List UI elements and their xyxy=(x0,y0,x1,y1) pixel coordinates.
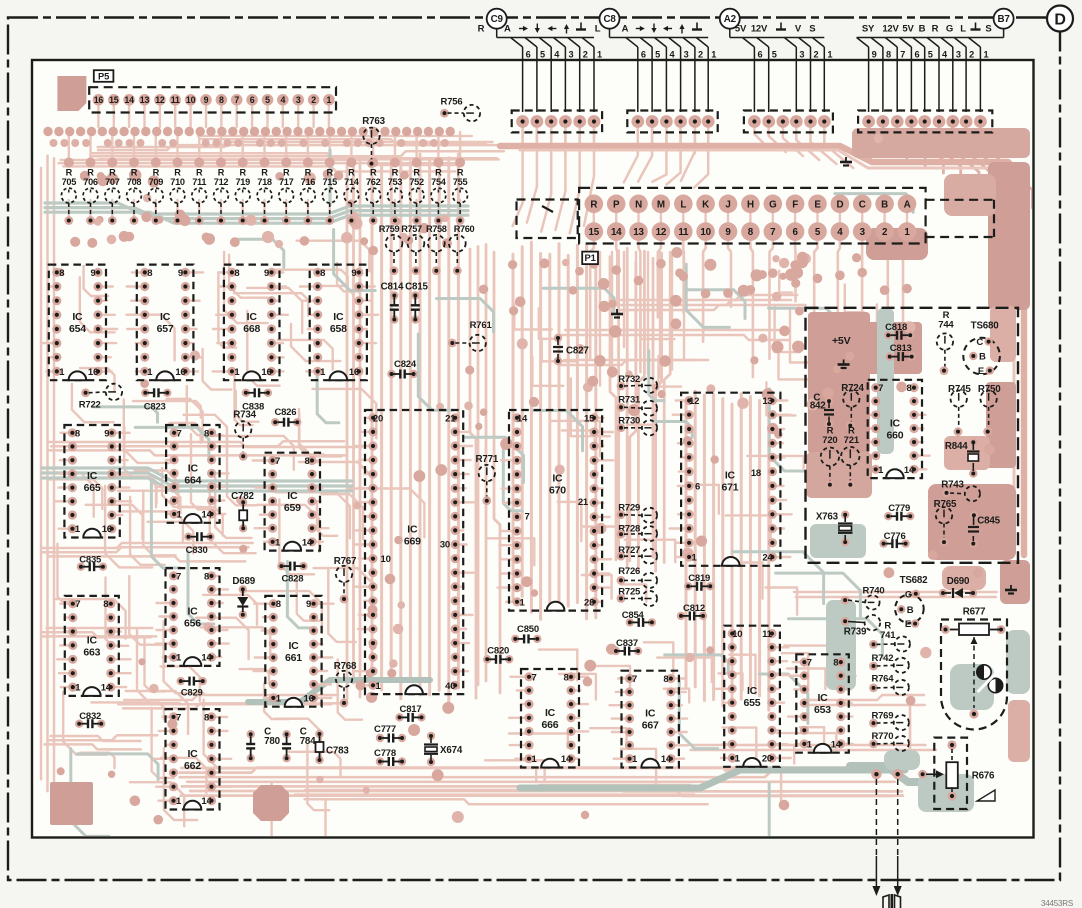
svg-text:C830: C830 xyxy=(186,545,208,556)
IC IC655 xyxy=(724,626,780,767)
svg-text:660: 660 xyxy=(886,430,903,442)
svg-text:16: 16 xyxy=(175,367,185,378)
svg-text:21: 21 xyxy=(445,413,456,424)
resistor R714 xyxy=(344,168,360,225)
resistor R722 xyxy=(79,384,122,411)
svg-text:6: 6 xyxy=(757,50,762,60)
svg-text:8: 8 xyxy=(663,674,668,685)
svg-text:1: 1 xyxy=(597,50,602,60)
svg-text:A2: A2 xyxy=(724,14,737,25)
svg-text:719: 719 xyxy=(235,177,250,187)
svg-text:D: D xyxy=(1054,11,1065,28)
svg-text:14: 14 xyxy=(561,754,572,765)
svg-text:R: R xyxy=(392,168,399,178)
svg-text:8: 8 xyxy=(204,428,209,439)
svg-text:721: 721 xyxy=(844,435,860,446)
svg-text:R765: R765 xyxy=(934,499,957,510)
svg-text:8: 8 xyxy=(75,428,80,439)
svg-text:1: 1 xyxy=(807,739,813,750)
svg-text:4: 4 xyxy=(280,95,285,105)
svg-text:TS680: TS680 xyxy=(971,320,1000,331)
svg-text:R760: R760 xyxy=(454,224,475,234)
svg-text:8: 8 xyxy=(833,658,838,669)
callout C8 xyxy=(600,9,620,29)
svg-text:720: 720 xyxy=(822,435,837,446)
svg-text:8: 8 xyxy=(276,599,281,610)
capacitor C820 xyxy=(483,646,513,664)
svg-text:R: R xyxy=(261,168,268,178)
connector B7 pin wires and labels xyxy=(857,23,1004,113)
svg-text:P1: P1 xyxy=(585,252,596,263)
svg-text:IC: IC xyxy=(187,748,198,760)
svg-text:707: 707 xyxy=(105,177,120,187)
svg-text:7: 7 xyxy=(176,571,181,582)
svg-text:IC: IC xyxy=(725,470,736,482)
resistor R771 xyxy=(475,454,498,505)
capacitor C812 xyxy=(677,603,707,621)
svg-text:7: 7 xyxy=(275,456,280,467)
capacitor C783 xyxy=(315,730,349,764)
IC IC663 xyxy=(65,596,119,696)
resistor R750 xyxy=(978,384,1001,436)
svg-text:B7: B7 xyxy=(998,14,1011,25)
callout C9 xyxy=(487,9,507,29)
svg-text:780: 780 xyxy=(264,736,280,747)
svg-text:R: R xyxy=(478,24,485,35)
svg-text:40: 40 xyxy=(445,681,455,692)
svg-text:IC: IC xyxy=(333,311,344,323)
resistor R740 xyxy=(841,586,885,610)
resistor R757 xyxy=(401,224,424,275)
IC IC670 xyxy=(509,410,602,611)
svg-text:7: 7 xyxy=(176,712,181,723)
svg-text:1: 1 xyxy=(327,95,332,105)
resistor R715 xyxy=(322,168,337,225)
connector P1 xyxy=(517,188,995,264)
capacitor C838 xyxy=(242,388,272,412)
svg-text:B: B xyxy=(907,605,914,616)
resistor R762 xyxy=(366,168,381,225)
svg-text:X763: X763 xyxy=(816,512,839,523)
resistor R732 xyxy=(617,374,658,393)
svg-text:E: E xyxy=(978,366,984,377)
svg-text:8: 8 xyxy=(320,268,325,279)
wire tick mark xyxy=(542,206,553,212)
capacitor C817 xyxy=(395,704,425,722)
IC IC669 xyxy=(365,410,463,694)
svg-text:709: 709 xyxy=(149,177,164,187)
svg-text:712: 712 xyxy=(214,177,229,187)
IC IC662 xyxy=(166,709,220,809)
svg-text:C: C xyxy=(905,589,912,600)
IC IC664 xyxy=(166,425,220,523)
svg-text:7: 7 xyxy=(900,50,905,60)
svg-text:5: 5 xyxy=(815,227,821,238)
svg-text:C817: C817 xyxy=(400,704,422,715)
svg-text:2: 2 xyxy=(814,50,819,60)
svg-text:8: 8 xyxy=(748,227,754,238)
callout D xyxy=(1047,6,1073,32)
svg-text:G: G xyxy=(769,199,777,210)
IC IC657 xyxy=(137,265,194,381)
svg-text:11: 11 xyxy=(171,95,180,105)
resistor R754 xyxy=(431,168,447,225)
svg-text:R: R xyxy=(239,168,246,178)
svg-text:E: E xyxy=(814,199,821,210)
svg-text:663: 663 xyxy=(83,646,100,658)
svg-text:R: R xyxy=(370,168,377,178)
svg-text:R: R xyxy=(66,168,73,178)
svg-text:7: 7 xyxy=(878,383,883,394)
svg-text:6: 6 xyxy=(641,50,646,60)
svg-text:R: R xyxy=(326,168,333,178)
svg-text:5: 5 xyxy=(772,50,777,60)
connector C8 strip xyxy=(627,111,717,133)
svg-text:C835: C835 xyxy=(79,555,102,566)
svg-text:1: 1 xyxy=(711,50,716,60)
svg-text:9: 9 xyxy=(872,50,877,60)
svg-text:9: 9 xyxy=(725,227,731,238)
svg-text:16: 16 xyxy=(102,524,112,535)
svg-text:S: S xyxy=(809,24,815,35)
svg-text:706: 706 xyxy=(83,177,98,187)
svg-text:34453RS: 34453RS xyxy=(1041,899,1073,908)
connector B7 strip xyxy=(858,111,992,133)
svg-text:L: L xyxy=(595,24,601,35)
svg-text:670: 670 xyxy=(549,485,566,497)
resistor R770 xyxy=(869,731,909,751)
capacitor C824 xyxy=(387,359,417,378)
svg-text:IC: IC xyxy=(188,462,199,474)
svg-text:13: 13 xyxy=(633,227,644,238)
capacitor C826 xyxy=(271,407,301,427)
capacitor C845 xyxy=(968,511,1001,548)
svg-text:C828: C828 xyxy=(281,574,303,585)
IC IC661 xyxy=(265,596,321,707)
svg-text:P: P xyxy=(613,199,620,210)
svg-text:657: 657 xyxy=(157,323,174,335)
svg-text:C776: C776 xyxy=(884,531,906,542)
svg-text:654: 654 xyxy=(69,323,86,335)
svg-text:6: 6 xyxy=(526,50,531,60)
svg-text:1: 1 xyxy=(692,553,698,564)
resistor R758 xyxy=(426,224,447,275)
resistor R765 xyxy=(934,499,957,546)
svg-text:IC: IC xyxy=(287,490,298,502)
svg-text:C783: C783 xyxy=(326,745,349,756)
capacitor C829 xyxy=(177,677,207,699)
svg-text:784: 784 xyxy=(300,736,316,747)
capacitor C837 xyxy=(612,638,642,655)
svg-text:1: 1 xyxy=(177,510,183,521)
svg-text:C779: C779 xyxy=(888,503,910,514)
capacitor C777 xyxy=(374,724,406,742)
resistor R742 xyxy=(869,653,909,673)
resistor R719 xyxy=(235,168,250,225)
svg-text:IC: IC xyxy=(288,640,299,652)
svg-text:8: 8 xyxy=(906,383,911,394)
resistor R721 xyxy=(841,426,860,489)
svg-text:M: M xyxy=(657,199,665,210)
svg-text:A: A xyxy=(904,199,911,210)
connector A2 strip xyxy=(744,111,833,133)
svg-text:K: K xyxy=(702,199,709,210)
svg-text:R756: R756 xyxy=(441,97,463,108)
svg-text:C820: C820 xyxy=(487,646,509,657)
IC IC656 xyxy=(166,568,220,666)
svg-text:F: F xyxy=(792,199,798,210)
svg-text:R: R xyxy=(87,168,94,178)
resistor R769 xyxy=(869,710,909,730)
svg-text:R: R xyxy=(109,168,116,178)
svg-text:8: 8 xyxy=(59,268,64,279)
resistor R708 xyxy=(127,168,142,225)
svg-text:R: R xyxy=(435,168,442,178)
svg-text:3: 3 xyxy=(799,50,804,60)
svg-text:6: 6 xyxy=(695,482,700,493)
resistor R759 xyxy=(379,224,403,275)
svg-text:14: 14 xyxy=(302,537,313,548)
resistor R763 xyxy=(362,116,385,168)
svg-text:L: L xyxy=(960,24,966,35)
svg-text:12: 12 xyxy=(689,396,699,407)
capacitor C780 xyxy=(246,727,280,763)
svg-text:C782: C782 xyxy=(231,491,254,502)
svg-text:659: 659 xyxy=(284,502,301,514)
svg-text:C813: C813 xyxy=(890,343,912,354)
svg-text:R676: R676 xyxy=(972,771,995,782)
svg-text:656: 656 xyxy=(184,618,201,630)
svg-text:15: 15 xyxy=(584,413,595,424)
svg-text:13: 13 xyxy=(762,396,772,407)
svg-text:1: 1 xyxy=(276,693,282,704)
svg-text:14: 14 xyxy=(101,683,112,694)
ground symbol in shield box xyxy=(838,360,850,369)
svg-text:J: J xyxy=(725,199,730,210)
resistor R743 xyxy=(941,479,980,501)
svg-text:10: 10 xyxy=(700,227,711,238)
resistor R741 xyxy=(869,621,910,652)
diode D690 xyxy=(939,576,977,598)
svg-text:C8: C8 xyxy=(603,14,616,25)
svg-text:8: 8 xyxy=(219,95,224,105)
svg-text:9: 9 xyxy=(264,268,269,279)
svg-text:7: 7 xyxy=(234,95,239,105)
svg-text:21: 21 xyxy=(578,497,589,508)
svg-text:5: 5 xyxy=(540,50,545,60)
svg-text:IC: IC xyxy=(187,606,198,618)
svg-text:12: 12 xyxy=(155,95,165,105)
svg-text:662: 662 xyxy=(184,760,201,772)
resistor R767 xyxy=(334,556,357,603)
svg-text:C815: C815 xyxy=(405,281,428,292)
svg-text:753: 753 xyxy=(388,177,403,187)
capacitor C815 xyxy=(405,281,428,323)
svg-text:5: 5 xyxy=(928,50,933,60)
svg-text:IC: IC xyxy=(747,685,758,697)
svg-text:H: H xyxy=(747,199,754,210)
ground symbol top middle xyxy=(840,157,852,166)
svg-text:7: 7 xyxy=(531,672,536,683)
svg-text:R: R xyxy=(283,168,290,178)
svg-text:C818: C818 xyxy=(885,322,907,333)
capacitor C779 xyxy=(884,503,914,521)
svg-text:14: 14 xyxy=(124,95,134,105)
svg-text:P5: P5 xyxy=(98,70,109,81)
svg-text:+5V: +5V xyxy=(832,335,851,347)
svg-text:C778: C778 xyxy=(374,748,396,759)
svg-text:R764: R764 xyxy=(871,673,894,684)
IC IC658 xyxy=(310,265,367,381)
svg-text:30: 30 xyxy=(440,540,450,551)
svg-text:1: 1 xyxy=(59,367,65,378)
svg-text:2: 2 xyxy=(698,50,703,60)
svg-text:14: 14 xyxy=(202,510,213,521)
svg-text:C824: C824 xyxy=(394,359,417,370)
svg-text:R739: R739 xyxy=(844,627,867,638)
resistor R716 xyxy=(301,168,316,225)
capacitor C830 xyxy=(184,532,214,556)
resistor R731 xyxy=(617,395,658,416)
svg-text:2: 2 xyxy=(311,95,316,105)
resistor R728 xyxy=(617,524,658,542)
svg-text:716: 716 xyxy=(301,177,316,187)
capacitor C823 xyxy=(141,388,171,412)
resistor R739 xyxy=(841,615,881,638)
svg-text:666: 666 xyxy=(542,719,559,731)
svg-text:18: 18 xyxy=(751,468,761,479)
resistor R712 xyxy=(214,168,229,225)
svg-text:R722: R722 xyxy=(79,400,101,411)
svg-text:14: 14 xyxy=(201,653,212,664)
svg-text:664: 664 xyxy=(184,474,201,486)
svg-text:710: 710 xyxy=(170,177,185,187)
svg-text:1: 1 xyxy=(275,537,281,548)
svg-text:14: 14 xyxy=(904,465,915,476)
svg-text:D689: D689 xyxy=(232,576,255,587)
IC IC668 xyxy=(224,265,280,381)
svg-text:8: 8 xyxy=(886,50,891,60)
svg-text:9: 9 xyxy=(351,268,356,279)
svg-text:8: 8 xyxy=(204,571,209,582)
svg-text:1: 1 xyxy=(147,367,153,378)
capacitor C832 xyxy=(75,711,105,728)
svg-text:16: 16 xyxy=(349,367,359,378)
resistor R745 xyxy=(948,384,971,436)
resistor R707 xyxy=(105,168,120,225)
svg-text:R844: R844 xyxy=(945,441,968,452)
svg-text:9: 9 xyxy=(104,428,109,439)
svg-text:IC: IC xyxy=(247,311,258,323)
resistor R720 xyxy=(821,426,839,489)
connector A2 pin wires and labels xyxy=(730,23,833,113)
svg-text:13: 13 xyxy=(140,95,150,105)
resistor R718 xyxy=(257,168,272,225)
svg-text:20: 20 xyxy=(373,413,383,424)
svg-text:8: 8 xyxy=(204,712,209,723)
svg-text:7: 7 xyxy=(770,227,776,238)
svg-text:R: R xyxy=(590,199,597,210)
resistor R730 xyxy=(617,416,658,436)
svg-text:14: 14 xyxy=(661,754,672,765)
capacitor C827 xyxy=(553,334,589,365)
svg-text:2: 2 xyxy=(969,50,974,60)
svg-text:9: 9 xyxy=(178,268,183,279)
resistor R760 xyxy=(449,224,475,275)
svg-text:762: 762 xyxy=(366,177,381,187)
capacitor C818 xyxy=(884,322,914,340)
svg-text:R: R xyxy=(413,168,420,178)
capacitor C776 xyxy=(879,531,909,548)
resistor R709 xyxy=(148,168,163,225)
resistor R705 xyxy=(61,168,76,225)
svg-text:28: 28 xyxy=(584,597,594,608)
svg-text:16: 16 xyxy=(261,367,271,378)
svg-text:658: 658 xyxy=(330,323,347,335)
capacitor C784 xyxy=(282,727,316,763)
ground symbol right xyxy=(1005,585,1017,594)
svg-text:IC: IC xyxy=(87,470,98,482)
svg-text:R740: R740 xyxy=(863,586,885,597)
resistor R752 xyxy=(409,168,424,225)
svg-text:R758: R758 xyxy=(426,224,447,234)
svg-text:IC: IC xyxy=(407,524,418,536)
capacitor C828 xyxy=(277,562,307,585)
svg-text:3: 3 xyxy=(860,227,866,238)
svg-text:8: 8 xyxy=(304,456,309,467)
svg-text:C812: C812 xyxy=(683,603,705,614)
svg-text:3: 3 xyxy=(568,50,573,60)
svg-text:741: 741 xyxy=(880,630,896,641)
svg-text:715: 715 xyxy=(322,177,337,187)
bottom connector glyph xyxy=(883,894,901,908)
svg-text:R677: R677 xyxy=(963,607,986,618)
svg-text:B: B xyxy=(881,199,888,210)
svg-text:3: 3 xyxy=(684,50,689,60)
svg-text:9: 9 xyxy=(306,599,311,610)
svg-text:661: 661 xyxy=(285,652,302,664)
svg-text:R: R xyxy=(218,168,225,178)
svg-text:R: R xyxy=(457,168,464,178)
resistor R734 xyxy=(233,410,256,461)
svg-text:B: B xyxy=(979,352,986,363)
IC IC671 xyxy=(681,393,780,566)
svg-text:6: 6 xyxy=(914,50,919,60)
svg-text:D: D xyxy=(836,199,843,210)
svg-text:R743: R743 xyxy=(941,479,964,490)
svg-text:708: 708 xyxy=(127,177,142,187)
svg-text:7: 7 xyxy=(807,658,812,669)
capacitor C819 xyxy=(684,573,714,591)
svg-text:N: N xyxy=(635,199,642,210)
svg-text:6: 6 xyxy=(792,227,798,238)
connector C9 pin wires and labels xyxy=(478,23,602,113)
svg-text:7: 7 xyxy=(177,428,182,439)
svg-text:IC: IC xyxy=(545,707,556,719)
svg-text:7: 7 xyxy=(75,599,80,610)
svg-text:15: 15 xyxy=(109,95,119,105)
svg-text:R: R xyxy=(131,168,138,178)
svg-text:R726: R726 xyxy=(618,566,640,577)
callout B7 xyxy=(994,9,1014,29)
IC IC660 xyxy=(868,380,922,478)
svg-text:E: E xyxy=(905,619,911,630)
svg-text:655: 655 xyxy=(744,697,761,709)
svg-text:10: 10 xyxy=(732,629,742,640)
svg-text:C: C xyxy=(859,199,866,210)
svg-text:842: 842 xyxy=(810,401,826,412)
resistor R717 xyxy=(279,168,294,225)
